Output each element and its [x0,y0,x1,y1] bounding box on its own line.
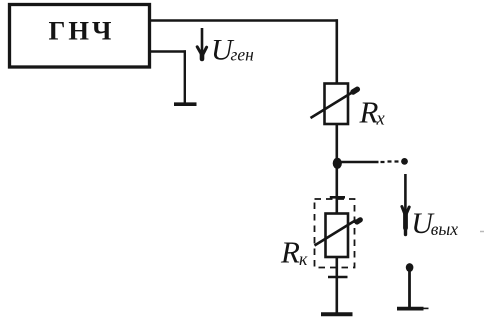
wire: Rk bottom [335,257,338,277]
wire: tick to Rk [335,197,338,213]
wire: Rx bottom to node A [335,124,338,160]
wire: down to ground [184,50,186,103]
ground (Rk branch) [321,312,353,316]
svg-text:ген: ген [231,45,255,65]
node A (junction dot) [333,158,342,169]
arrow Uвых (output voltage direction) [402,174,409,235]
wire: down to ground [335,277,338,313]
ground (output) [397,307,424,311]
arrow through Rk [315,220,361,246]
resistor Rx (variable) [325,84,349,125]
ground (generator) [174,102,197,106]
dashed enclosure around Rk [315,199,355,268]
svg-text:вых: вых [431,219,458,239]
arrow Uген (voltage direction) [197,28,206,59]
terminal tick (Rk top) [330,196,345,199]
wire: node A down to Rk terminal [335,168,338,197]
wire: vertical down to Rx [335,19,338,84]
wire: generator top output to node A (top run) [151,19,338,22]
output ground terminal dot [406,263,414,272]
svg-text:к: к [299,249,308,269]
terminal tick (Rk bottom) [328,276,348,279]
resistor Rk (variable) [326,214,349,258]
stray scan mark [480,231,484,233]
svg-text:R: R [359,95,379,130]
node B (output tap dot) [401,158,408,165]
wire: generator bottom terminal [151,50,186,52]
generator box U1 (ГНЧ low-frequency generator) [10,5,150,68]
svg-text:x: x [376,110,386,130]
wire: to output ground [408,270,411,307]
svg-text:R: R [280,235,300,270]
wire: node A to output tap (dashed tail) [337,161,379,164]
svg-text:ГНЧ: ГНЧ [49,16,115,46]
arrow through Rx [311,89,358,118]
